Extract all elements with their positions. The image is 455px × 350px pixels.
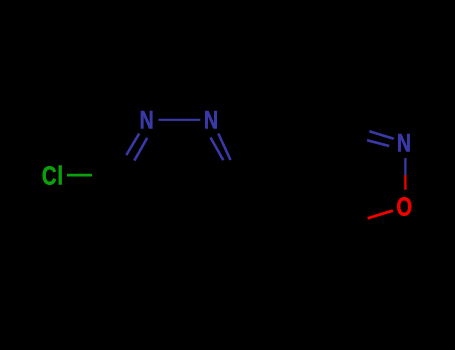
wire: Cl-C6 bond [67,174,92,177]
svg-text:Cl: Cl [42,161,64,190]
svg-text:N: N [140,106,154,134]
wire: N1=C6 double bond inner line [134,138,147,161]
wire: N-O bond red half (isoxazole) [404,175,406,190]
svg-text:O: O [396,192,412,221]
wire: N2=C3 double bond main line [218,134,230,161]
wire: N1-N2 bond (pyridazine) [159,119,201,121]
wire: C3'=N double bond inner line (isoxazole) [367,140,389,146]
wire: N1=C6 double bond main line [126,134,139,156]
svg-text:N: N [397,129,411,157]
wire: N-O bond blue half (isoxazole) [404,158,406,175]
wire: C3'=N double bond main line (isoxazole) [369,131,394,139]
svg-text:N: N [204,106,218,134]
wire: N2=C3 double bond inner line [211,138,224,161]
wire: O-C5' bond (isoxazole) [368,211,393,219]
